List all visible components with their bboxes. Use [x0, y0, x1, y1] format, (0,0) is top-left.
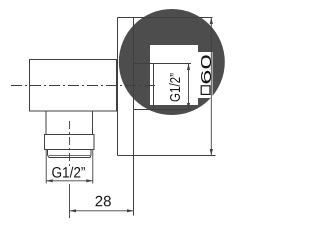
small square glyph of the square-60 label	[201, 86, 210, 95]
plate bottom edge + extension to dim line	[118, 155, 216, 157]
collar	[45, 135, 95, 150]
boss top edge + extension	[134, 63, 192, 65]
white cutout box around square-60 label	[195, 52, 213, 98]
square-60 dimension line with arrows	[210, 18, 212, 156]
svg-text:28: 28	[95, 193, 112, 210]
svg-text:G1/2”: G1/2”	[168, 73, 184, 102]
escutcheon disc (dark gray residue)	[119, 9, 225, 115]
wall plate section: front face line + extension to 28-dim	[133, 18, 135, 216]
white cutout box around G1/2 dimension	[150, 45, 198, 105]
G1/2 thread dimension line with arrows	[46, 180, 93, 182]
28 dimension line with arrows	[70, 210, 134, 212]
svg-text:60: 60	[199, 54, 215, 85]
thread bottom inner line	[49, 155, 90, 157]
G1/2 boss dimension line (right view) with arrows	[188, 64, 190, 110]
boss bottom edge + extension	[134, 109, 192, 111]
G1/2 thread dimension: left extension line	[45, 150, 47, 184]
vertical centerline of nipple	[69, 121, 71, 166]
thread section	[48, 150, 92, 158]
boss front face	[153, 64, 155, 110]
G1/2 thread dimension: right extension line	[92, 150, 94, 184]
nipple tube right side	[92, 112, 94, 135]
plate top edge + extension to dim line	[118, 17, 213, 19]
wall plate section: back face line	[117, 18, 119, 156]
body rectangle (elbow housing, side view)	[30, 60, 117, 112]
horizontal centerline	[11, 85, 158, 87]
extension line from nipple axis down to 28 dim	[69, 184, 71, 218]
nipple tube left side	[45, 112, 47, 135]
svg-text:G1/2”: G1/2”	[51, 165, 85, 182]
